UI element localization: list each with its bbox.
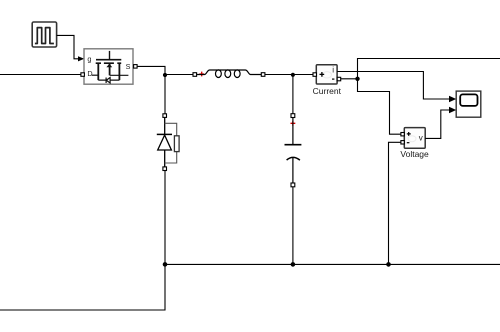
- ground node junction left: [163, 262, 168, 267]
- wire: MOSFET S to node A: [137, 66, 165, 73]
- substrate arrow: [106, 64, 112, 68]
- arrowhead into gate g: [78, 56, 84, 61]
- svg-text:Voltage: Voltage: [400, 149, 429, 159]
- wire: current - to node C: [341, 78, 358, 80]
- drain internal line: [92, 74, 99, 76]
- middle plate: [109, 63, 111, 75]
- plus label: [320, 72, 325, 77]
- svg-text:S: S: [126, 62, 131, 71]
- top plate: [285, 144, 302, 146]
- scope block: [456, 91, 481, 117]
- left plate: [97, 63, 99, 80]
- port square: D1 bottom: [163, 167, 167, 171]
- plus label: [407, 132, 411, 136]
- MOSFET block U1: [84, 49, 133, 84]
- wire: pulse generator to MOSFET gate: [57, 35, 79, 58]
- wire: current i output to scope input 1: [337, 72, 449, 100]
- node B junction (capacitor tap): [291, 73, 295, 77]
- polarity mark + (red): [199, 72, 204, 77]
- wire: node C up and off right: [358, 59, 500, 79]
- arrowhead scope input 1: [449, 96, 456, 103]
- coil loop 3: [234, 70, 240, 78]
- port square: current +: [313, 73, 317, 77]
- port square: current -: [337, 77, 341, 81]
- svg-text:Current: Current: [313, 86, 342, 96]
- wire: voltage v output to scope input 2: [425, 110, 449, 138]
- snubber branch wires: [165, 123, 177, 163]
- capacitor C1: [285, 114, 302, 187]
- port square: L1 right: [261, 73, 265, 77]
- wire: diode to bottom rail: [164, 171, 166, 265]
- svg-text:i: i: [332, 65, 334, 74]
- minus label: [407, 142, 410, 144]
- source internal line: [110, 74, 129, 76]
- snubber resistor Rs: [174, 136, 179, 152]
- port square: MOSFET D: [81, 73, 85, 77]
- current measurement block: [316, 65, 337, 84]
- port square: C1 top: [291, 114, 295, 118]
- bottom rail wire: [165, 263, 500, 265]
- wire: node A to inductor: [165, 74, 193, 76]
- coil loop 1: [216, 70, 222, 78]
- port square: D1 top: [163, 114, 167, 118]
- svg-text:v: v: [419, 133, 423, 142]
- top lead: [292, 118, 294, 145]
- gate bar: [96, 59, 121, 61]
- port square: C1 bottom: [291, 183, 295, 187]
- polarity mark + (red): [291, 121, 296, 126]
- wire: DC source to MOSFET drain: [0, 74, 81, 76]
- diode cathode bar: [157, 133, 172, 135]
- arrowhead scope input 2: [449, 107, 456, 114]
- coil loop 2: [225, 70, 231, 78]
- wire: voltage - to bottom rail: [389, 142, 401, 264]
- voltage rail junction: [386, 262, 391, 267]
- curved bottom plate: [287, 157, 300, 160]
- capacitor rail junction: [291, 262, 296, 267]
- wire: node A down to diode: [164, 75, 166, 114]
- svg-text:D: D: [87, 69, 92, 78]
- wire: inductor to current measurement: [265, 74, 313, 76]
- inductor L1: [193, 70, 265, 78]
- right plate: [118, 63, 120, 80]
- ghost icon: [323, 72, 332, 78]
- body diode symbol: [106, 78, 110, 84]
- port square: MOSFET S: [134, 65, 138, 69]
- pulse generator block: [32, 22, 56, 47]
- port square: voltage -: [401, 141, 404, 144]
- node C junction: [355, 77, 359, 81]
- diode triangle: [158, 135, 172, 150]
- wire: node B down to capacitor: [292, 75, 294, 114]
- port square: L1 left: [193, 73, 197, 77]
- wire: capacitor to bottom rail: [292, 187, 294, 265]
- ghost icon: [408, 136, 416, 142]
- body diode bottom loop: [98, 79, 119, 81]
- coil lead-in: [197, 70, 261, 75]
- bottom lead: [292, 158, 294, 183]
- svg-text:g: g: [87, 54, 91, 63]
- gate top stub: [109, 51, 111, 59]
- wire: rail return to source: [0, 264, 165, 310]
- anode/cathode vertical: [164, 117, 166, 167]
- port square: voltage +: [401, 133, 404, 136]
- voltage measurement block: [404, 128, 425, 149]
- minus label: [332, 78, 334, 80]
- channel segments: [96, 62, 122, 64]
- node A junction: [163, 73, 167, 77]
- diode D1 with RC snubber: [157, 114, 179, 171]
- wire: node C to voltage +: [358, 79, 401, 134]
